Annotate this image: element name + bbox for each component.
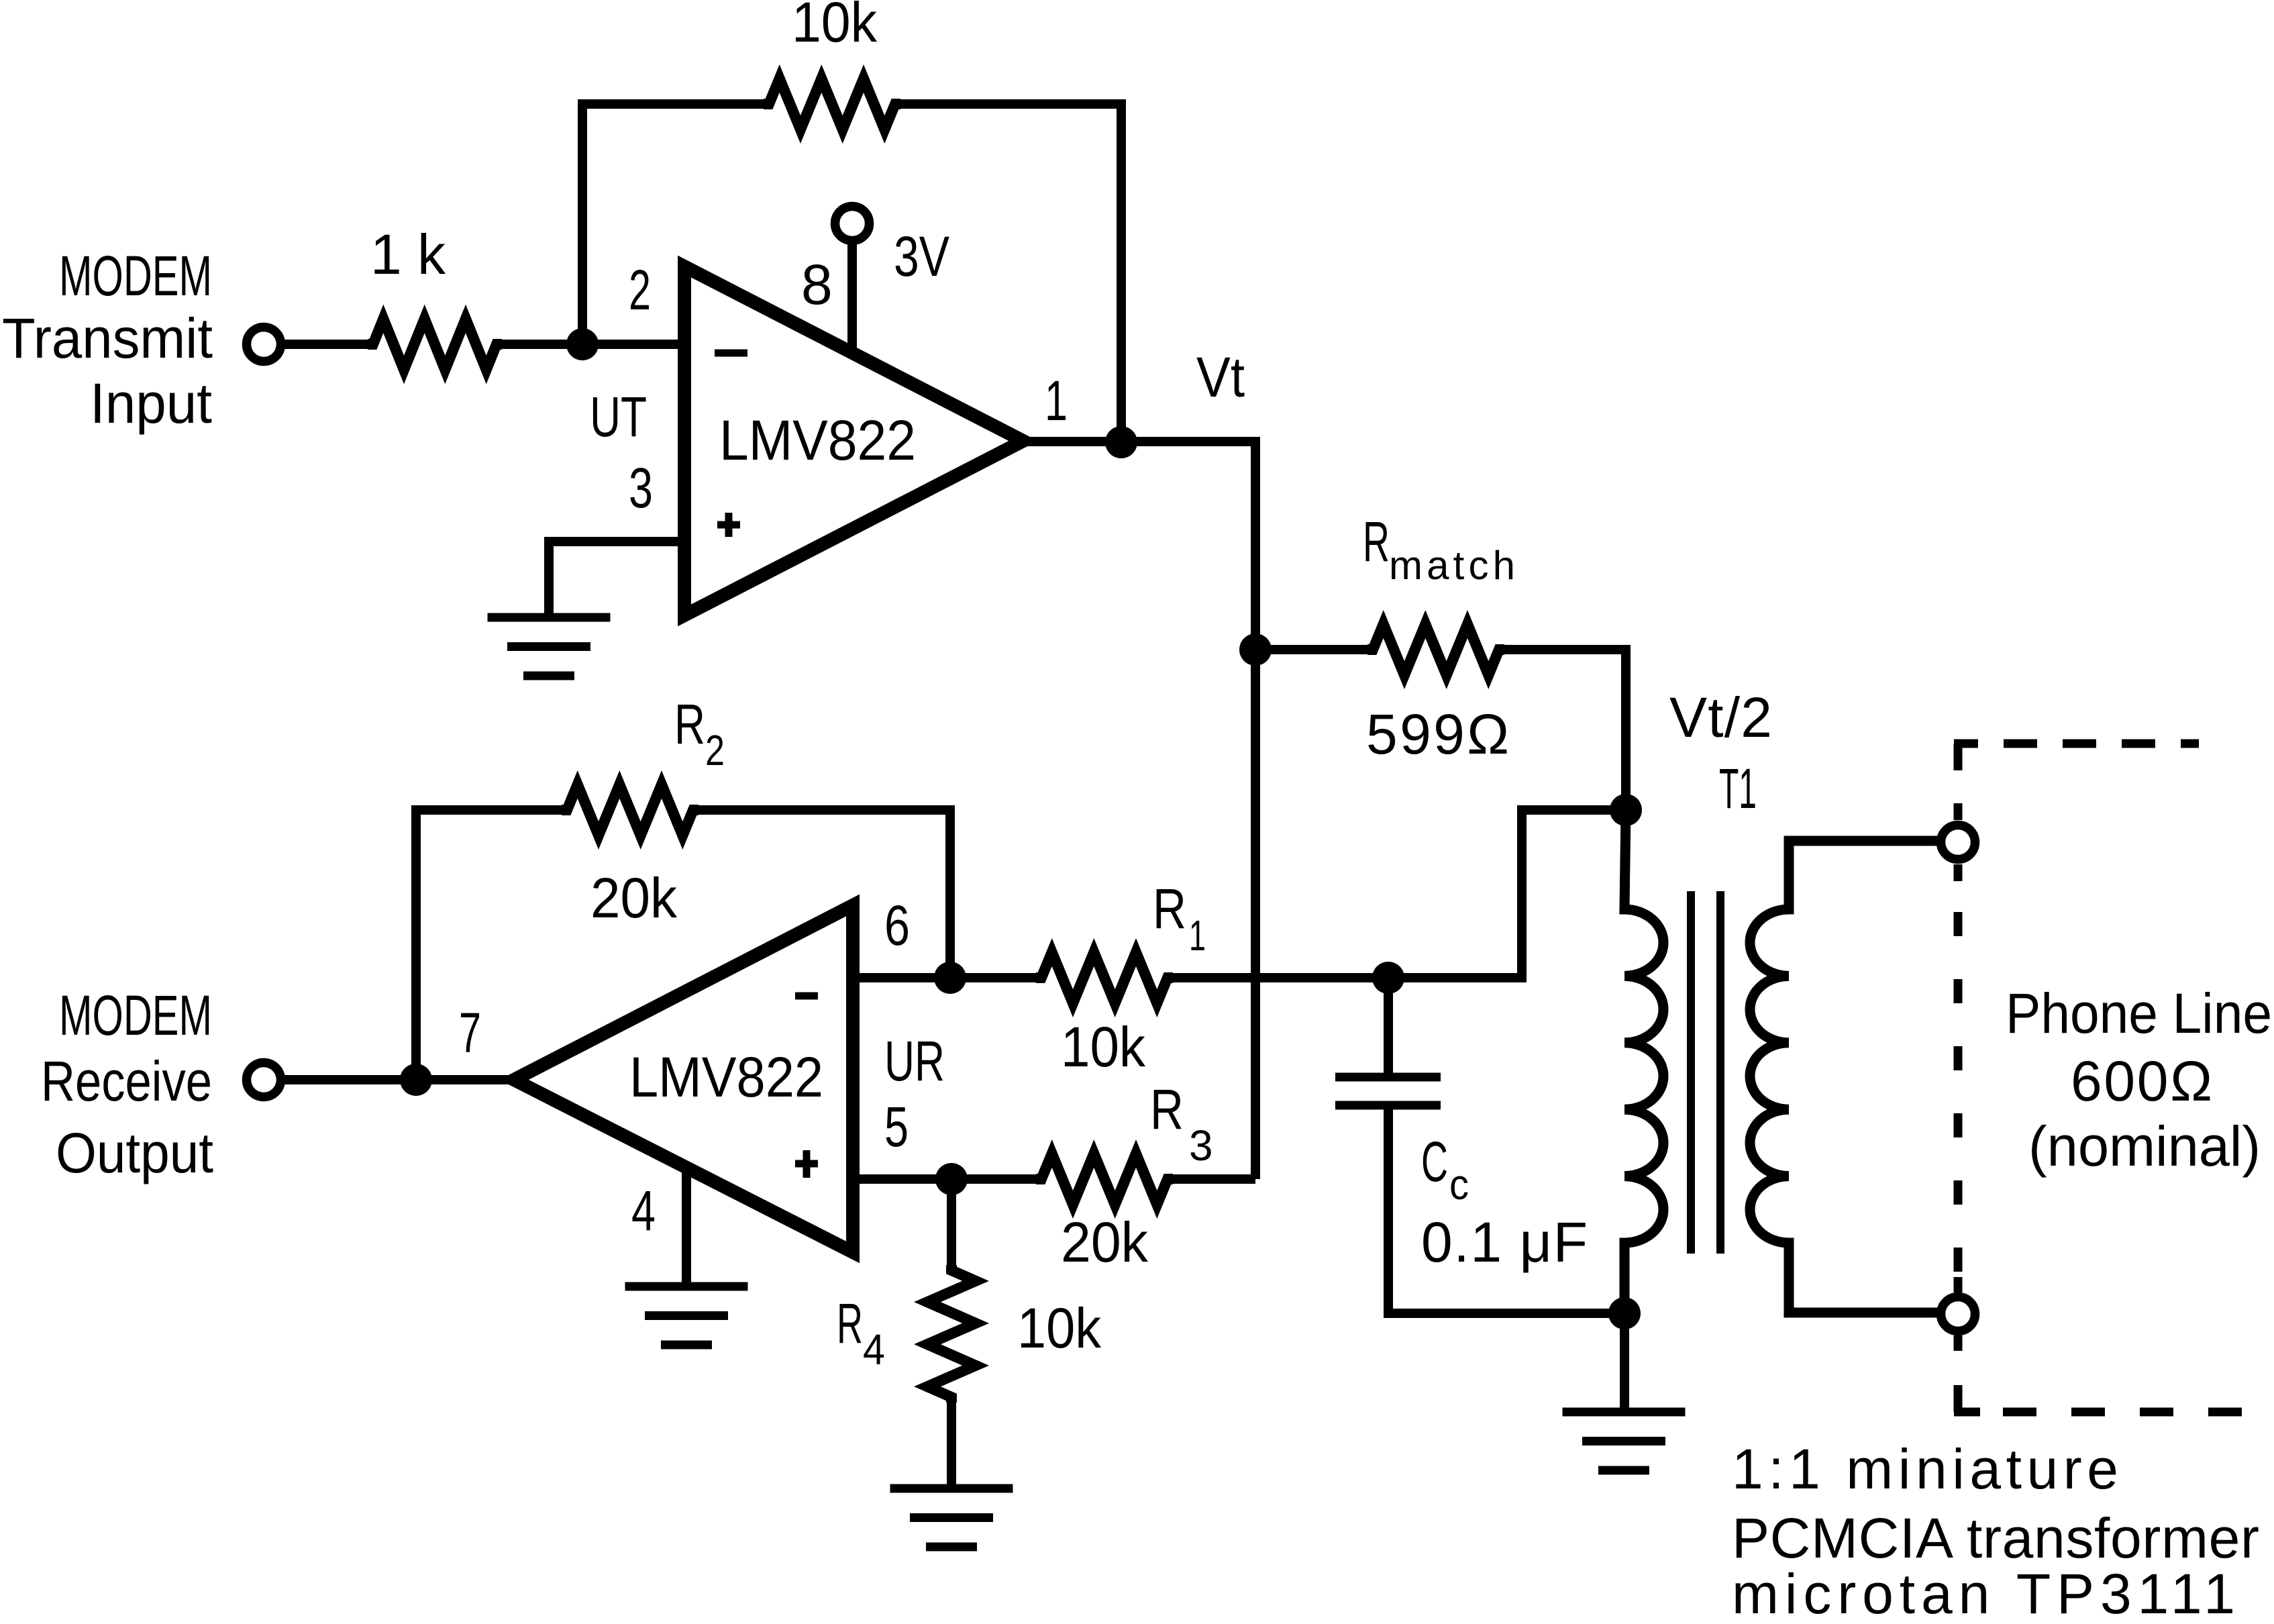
junction: Vt to Rmatch <box>1239 633 1272 666</box>
svg-text:4: 4 <box>631 1179 656 1242</box>
op-amp U_T LMV822 (transmit) <box>684 266 1023 615</box>
svg-text:Phone Line: Phone Line <box>2006 982 2272 1045</box>
svg-text:2: 2 <box>629 258 651 321</box>
svg-text:20k: 20k <box>1061 1211 1149 1274</box>
ground (T1 / line side) <box>1563 1412 1686 1470</box>
svg-text:UT: UT <box>590 385 647 448</box>
wire: pin 5 to R3 <box>853 1174 1041 1184</box>
transformer T1 primary winding <box>1624 810 1663 1313</box>
svg-text:Receive: Receive <box>41 1050 212 1113</box>
svg-text:Output: Output <box>56 1121 213 1184</box>
svg-text:3V: 3V <box>894 225 949 288</box>
wire: input terminal to R 1k <box>280 340 373 349</box>
svg-text:R: R <box>1363 510 1390 573</box>
svg-text:2: 2 <box>705 726 725 774</box>
svg-text:20k: 20k <box>590 866 678 929</box>
transformer T1 secondary winding <box>1750 841 1941 1313</box>
junction: line node / Cc top <box>1372 962 1404 994</box>
svg-text:microtan TP3111: microtan TP3111 <box>1732 1562 2235 1624</box>
junction: node at pin 2 <box>566 328 599 360</box>
resistor 1k (transmit input) <box>368 319 502 370</box>
terminal: phone line tip <box>1941 825 1975 860</box>
wire: T1 bottom to ground <box>1620 1313 1629 1412</box>
svg-text:4: 4 <box>863 1325 885 1374</box>
svg-text:600Ω: 600Ω <box>2071 1050 2212 1113</box>
svg-text:3: 3 <box>629 456 653 519</box>
junction: T1 primary top <box>1610 794 1642 826</box>
svg-text:10k: 10k <box>1061 1015 1146 1078</box>
svg-text:LMV822: LMV822 <box>629 1046 823 1109</box>
wire: pin 8 supply stub <box>847 240 857 353</box>
terminal: phone line ring <box>1941 1297 1975 1331</box>
wire: 10k to output node Vt <box>895 104 1121 442</box>
ground (R4) <box>890 1488 1013 1547</box>
junction: pin 6 node <box>934 962 966 994</box>
svg-text:0.1 μF: 0.1 μF <box>1421 1211 1588 1274</box>
svg-text:LMV822: LMV822 <box>719 409 916 472</box>
wire: Rmatch to T1 top <box>1499 650 1626 810</box>
wire: Cc bottom to T1 bottom <box>1388 1105 1624 1313</box>
wire: pin 3 to ground <box>549 542 680 617</box>
svg-text:C: C <box>1421 1130 1448 1193</box>
wire: pin 6 to R1 <box>853 973 1041 982</box>
wire: pin5 node down to R4 <box>947 1179 956 1270</box>
svg-text:R: R <box>1153 877 1186 940</box>
resistor Rmatch 599 ohm <box>1367 624 1504 675</box>
svg-text:10k: 10k <box>1017 1297 1102 1360</box>
svg-text:c: c <box>1449 1160 1469 1209</box>
dashed phone line boundary bottom horizontal <box>1954 1408 2242 1417</box>
svg-text:UR: UR <box>884 1029 945 1093</box>
wire: R2 feedback loop <box>416 810 567 1080</box>
dashed phone line boundary top corner piece <box>1954 744 1963 1412</box>
svg-text:R: R <box>674 693 705 756</box>
junction: T1 primary bottom <box>1608 1297 1641 1329</box>
wire: R2 to pin 6 node <box>693 810 950 978</box>
junction: Vt node at output <box>1105 426 1137 458</box>
resistor R1 10k <box>1036 952 1173 1003</box>
wire: step from line node up to T1 top <box>1388 810 1626 978</box>
junction: pin 7 node <box>400 1064 432 1096</box>
svg-text:MODEM: MODEM <box>59 244 212 307</box>
minus sign UT inverting input <box>715 350 747 357</box>
svg-text:Input: Input <box>90 372 212 435</box>
wire: Vt junction to Rmatch <box>1255 645 1373 654</box>
wire: op-amp output pin 1 to Vt vertical down to R3 <box>1023 442 1255 1179</box>
svg-text:7: 7 <box>459 1001 481 1064</box>
ground (UR pin 4) <box>625 1286 748 1345</box>
svg-text:Transmit: Transmit <box>2 307 213 370</box>
dashed phone line boundary top horizontal <box>1954 740 2199 748</box>
wire: R1 to line node (crossover at Vt line) <box>1168 973 1388 982</box>
capacitor Cc 0.1uF <box>1335 1077 1441 1105</box>
svg-text:R: R <box>1150 1078 1184 1141</box>
svg-text:599Ω: 599Ω <box>1366 703 1509 766</box>
junction: pin 5 node <box>935 1163 968 1195</box>
wire: 1k to op-amp inverting input (pin 2) <box>497 340 680 349</box>
svg-text:3: 3 <box>1189 1121 1213 1170</box>
terminal: 3V supply <box>835 207 870 241</box>
wire: R4 to ground <box>947 1397 956 1488</box>
wire: pin 4 to ground <box>682 1168 691 1286</box>
svg-text:Vt/2: Vt/2 <box>1669 686 1772 749</box>
svg-text:6: 6 <box>884 894 910 957</box>
plus sign UR non-inverting input <box>795 1150 818 1178</box>
resistor R2 20k <box>562 784 699 835</box>
terminal: modem transmit input <box>247 327 281 362</box>
svg-text:MODEM: MODEM <box>59 984 212 1047</box>
wire: line node down to Cc <box>1384 978 1393 1077</box>
ground (UT pin 3) <box>488 617 611 676</box>
wire: R3 to Vt vertical <box>1168 1174 1255 1184</box>
svg-text:1: 1 <box>1045 369 1068 432</box>
resistor 10k (UT feedback) <box>764 79 900 130</box>
svg-text:1: 1 <box>1189 911 1206 960</box>
terminal: modem receive output <box>247 1063 281 1097</box>
svg-text:(nominal): (nominal) <box>2028 1115 2261 1178</box>
wire: receive terminal to op-amp UR output <box>280 1075 514 1084</box>
op-amp U_R LMV822 (receive) <box>514 905 853 1252</box>
svg-text:8: 8 <box>801 253 833 316</box>
minus sign UR inverting input <box>795 993 818 1000</box>
resistor R4 10k <box>927 1265 976 1403</box>
svg-text:T1: T1 <box>1719 757 1757 820</box>
svg-text:10k: 10k <box>792 0 878 54</box>
plus sign UT non-inverting input <box>717 513 740 537</box>
svg-text:Vt: Vt <box>1196 346 1245 409</box>
resistor R3 20k <box>1036 1154 1173 1205</box>
transformer T1 core <box>1691 891 1720 1254</box>
svg-text:R: R <box>837 1292 863 1355</box>
svg-text:PCMCIA transformer: PCMCIA transformer <box>1732 1507 2259 1570</box>
wire: feedback left vertical + top to 10k <box>582 104 769 344</box>
svg-text:5: 5 <box>884 1095 909 1158</box>
